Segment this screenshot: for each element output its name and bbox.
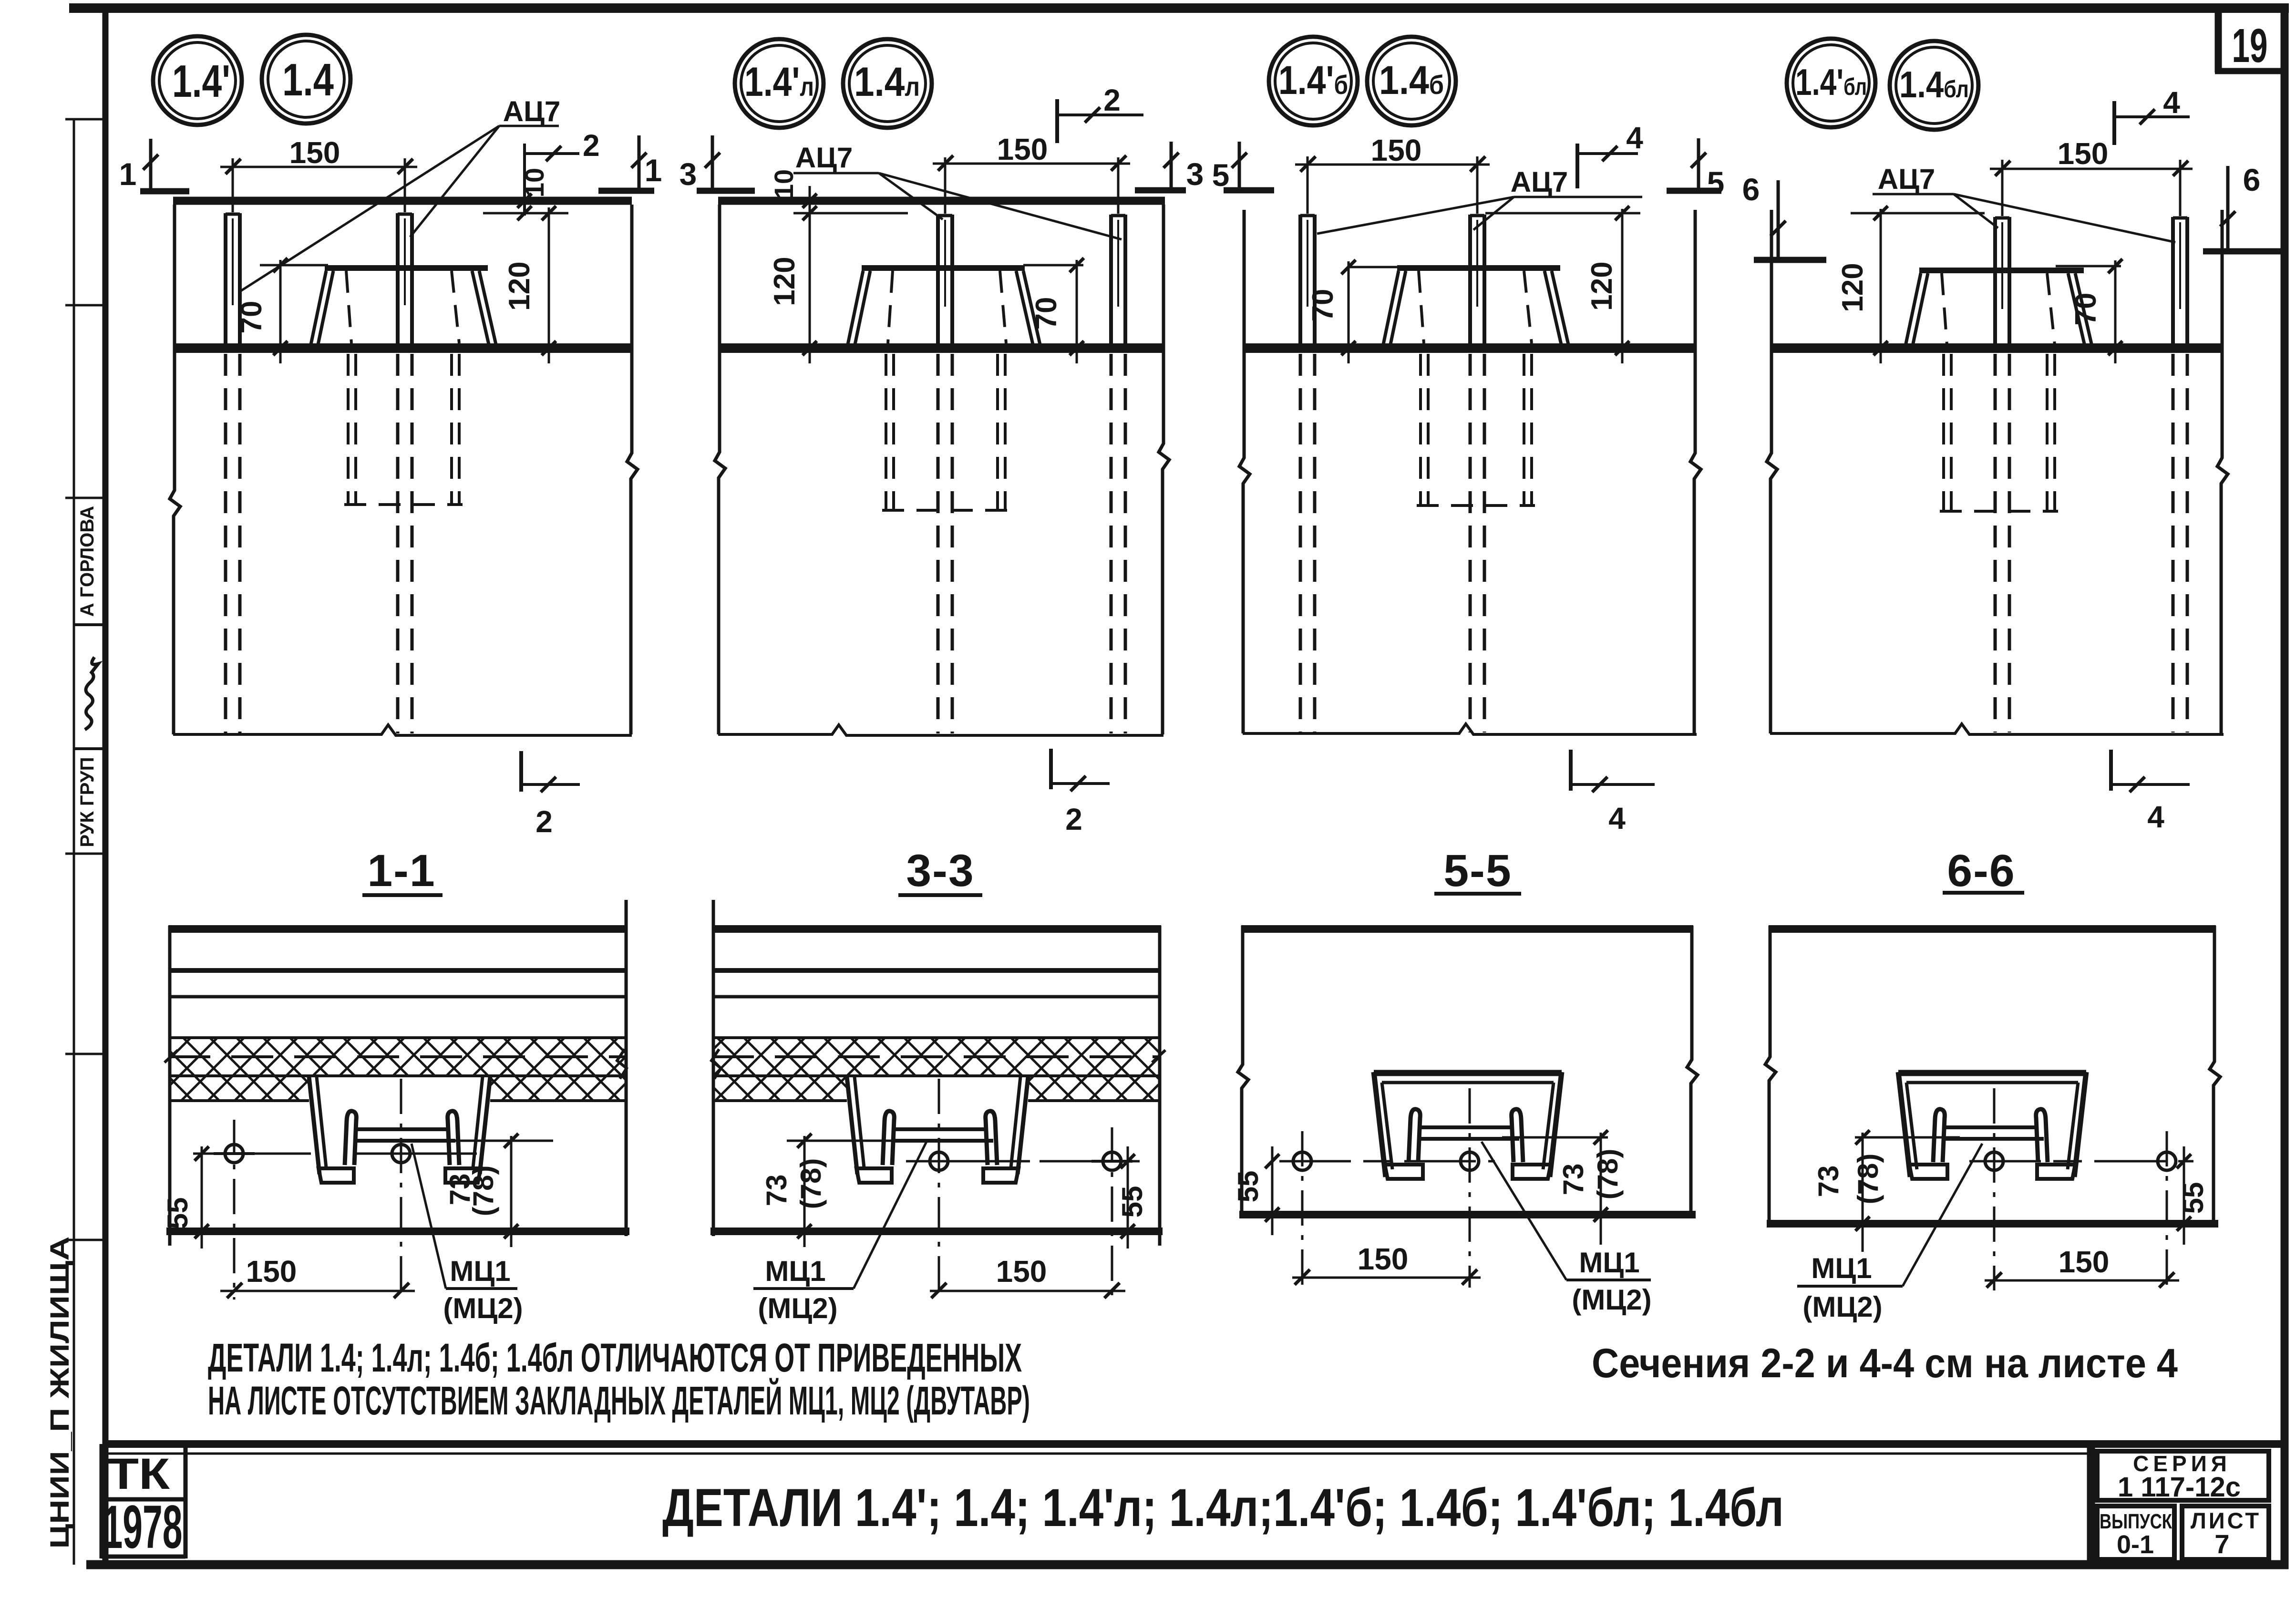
lower panel top edge (slab line) bbox=[718, 343, 1165, 353]
I-beam web bbox=[1418, 1127, 1519, 1139]
dovetail key hidden left edge bbox=[1419, 271, 1424, 343]
svg-text:1.4: 1.4 bbox=[282, 54, 334, 105]
anchor symbol centre bbox=[1461, 1088, 1479, 1288]
svg-text:АЦ7: АЦ7 bbox=[795, 142, 853, 174]
panel bottom line bbox=[1239, 1211, 1696, 1218]
dim 120 (panel reveal height) bbox=[1836, 206, 1985, 363]
detail circle 1.4б bbox=[1367, 37, 1456, 125]
anchor symbol centre bbox=[930, 1079, 948, 1300]
floor slab top line bbox=[712, 925, 1161, 933]
lower panel top edge (slab line) bbox=[1770, 343, 2224, 353]
svg-text:70: 70 bbox=[235, 301, 268, 334]
hatch band break mark 3-3 left end bbox=[711, 1049, 721, 1079]
upper panel bottom edge (top slab line) bbox=[718, 197, 1165, 205]
I-beam right flange bbox=[448, 1111, 459, 1165]
detail circle 1.4л bbox=[843, 39, 932, 128]
svg-text:150: 150 bbox=[2059, 1245, 2110, 1279]
panel left edge with break bbox=[1767, 210, 1777, 733]
trim tick y640 bbox=[65, 304, 105, 307]
dim 73 (78) bbox=[761, 1134, 901, 1247]
panel bottom line with break bbox=[1243, 724, 1697, 734]
detail circle 1.4бл bbox=[1890, 41, 1978, 130]
centre dash line end tick 1-1 bbox=[165, 1050, 178, 1063]
panel right edge with break bbox=[2210, 926, 2220, 1224]
svg-text:4: 4 bbox=[2163, 85, 2180, 120]
svg-text:(78): (78) bbox=[1592, 1149, 1624, 1200]
anchor symbol left bbox=[214, 1120, 255, 1300]
detail circle 1.4 bbox=[262, 35, 350, 124]
svg-text:(78): (78) bbox=[795, 1158, 827, 1209]
svg-text:150: 150 bbox=[1371, 133, 1422, 167]
dim 120 (panel reveal height) bbox=[1485, 206, 1640, 363]
svg-text:2: 2 bbox=[583, 128, 600, 163]
panel right edge with break bbox=[2217, 210, 2228, 733]
anchor symbol right bbox=[1091, 1127, 1133, 1300]
section mark 6 (left) bbox=[1742, 172, 1826, 260]
I-beam right flange bbox=[1512, 1109, 1523, 1162]
frame right border bbox=[2281, 4, 2289, 1569]
section title 3-3 bbox=[898, 846, 982, 896]
panel bottom line with break bbox=[173, 725, 632, 735]
list cell bbox=[2182, 1506, 2269, 1559]
dim 70 (key height) bbox=[1023, 258, 1084, 363]
svg-text:10: 10 bbox=[769, 169, 799, 199]
I-beam right flange bbox=[2036, 1109, 2048, 1162]
svg-text:3-3: 3-3 bbox=[906, 846, 974, 896]
label АЦ7 with leaders bbox=[793, 142, 1122, 239]
dovetail key right side bbox=[472, 271, 496, 344]
TK box bbox=[100, 1444, 104, 1558]
channel right foot bbox=[983, 1168, 1019, 1183]
panel right edge with break bbox=[627, 205, 638, 734]
svg-text:1-1: 1-1 bbox=[367, 846, 435, 896]
svg-text:4: 4 bbox=[2147, 800, 2164, 834]
dim 120 (panel reveal height) bbox=[768, 216, 817, 363]
dim 150 (rod spacing) bbox=[1295, 133, 1490, 214]
I-beam web bbox=[892, 1129, 993, 1141]
dovetail key right side bbox=[2068, 273, 2092, 346]
panel bottom line bbox=[1767, 1220, 2218, 1228]
dovetail key left side bbox=[1905, 273, 1928, 346]
svg-text:АЦ7: АЦ7 bbox=[503, 95, 561, 127]
anchor rod АЦ7 center (solid part) bbox=[938, 215, 952, 353]
centre line through anchors bbox=[1279, 1160, 1495, 1163]
svg-text:3: 3 bbox=[680, 156, 697, 192]
dim 55 bbox=[1232, 1146, 1279, 1235]
trim tick y2600 bbox=[65, 1239, 105, 1241]
floor layer line 2 bbox=[712, 968, 1161, 973]
svg-text:7: 7 bbox=[2214, 1529, 2229, 1559]
channel left foot bbox=[1909, 1165, 1947, 1179]
anchor rod АЦ7 right (solid part) bbox=[1470, 215, 1484, 353]
hidden key pocket below joint bbox=[882, 354, 1009, 510]
hatched strip right of channel bbox=[1028, 1077, 1161, 1101]
floor layer line 2 bbox=[168, 968, 628, 973]
sheet number box bbox=[2215, 13, 2222, 72]
label МЦ1 (МЦ2) with leader bbox=[1797, 1144, 1982, 1323]
trim tick y250 bbox=[65, 118, 105, 121]
dovetail key hidden right edge bbox=[1000, 271, 1006, 343]
dim 10 (joint gap) bbox=[483, 144, 568, 220]
svg-text:150: 150 bbox=[246, 1254, 297, 1289]
svg-text:1: 1 bbox=[119, 156, 137, 192]
panel right edge with break bbox=[1159, 205, 1169, 734]
panel left edge bbox=[712, 900, 715, 1236]
svg-text:(МЦ2): (МЦ2) bbox=[1572, 1284, 1651, 1316]
anchor rod center hidden part bbox=[938, 354, 952, 733]
section mark 4 (top) bbox=[2114, 85, 2190, 145]
hidden key pocket below joint bbox=[344, 354, 463, 505]
panel left edge with break bbox=[715, 205, 725, 734]
channel box МЦ1 outer bbox=[1898, 1072, 2086, 1177]
svg-text:5-5: 5-5 bbox=[1443, 846, 1512, 896]
label МЦ1 (МЦ2) with leader bbox=[412, 1144, 523, 1324]
trim tick y1790 bbox=[65, 853, 105, 855]
section mark 2 (top) bbox=[1057, 83, 1143, 143]
dim 150 (rod spacing) bbox=[1990, 136, 2193, 216]
svg-text:120: 120 bbox=[1586, 261, 1618, 310]
svg-text:0-1: 0-1 bbox=[2117, 1530, 2154, 1559]
panel right edge with break bbox=[1690, 210, 1701, 733]
panel top line bbox=[1241, 925, 1693, 933]
lower panel top edge (slab line) bbox=[173, 343, 632, 353]
svg-text:73: 73 bbox=[1557, 1164, 1589, 1196]
section mark 4 (top) bbox=[1577, 121, 1643, 188]
svg-text:НА ЛИСТЕ ОТСУТСТВИЕМ ЗАКЛАДНЫХ: НА ЛИСТЕ ОТСУТСТВИЕМ ЗАКЛАДНЫХ ДЕТАЛЕЙ М… bbox=[208, 1378, 1030, 1423]
upper panel bottom edge (top slab line) bbox=[173, 197, 632, 205]
dovetail key right side bbox=[1016, 271, 1040, 344]
panel left edge with break bbox=[1765, 926, 1776, 1224]
section mark 6 (right) bbox=[2203, 162, 2281, 251]
I-beam (двутавр) left flange bbox=[1933, 1109, 1945, 1162]
I-beam (двутавр) left flange bbox=[883, 1111, 894, 1165]
dim 150 (rod spacing) bbox=[220, 135, 417, 212]
svg-text:МЦ1: МЦ1 bbox=[450, 1255, 510, 1287]
anchor rod right hidden part bbox=[1111, 354, 1125, 733]
floor slab top line bbox=[168, 925, 628, 933]
svg-text:4: 4 bbox=[1626, 121, 1643, 155]
panel left edge with break bbox=[1238, 926, 1248, 1215]
channel box МЦ1 inner bbox=[1382, 1083, 1554, 1169]
svg-text:2: 2 bbox=[1065, 802, 1082, 836]
anchor symbol centre bbox=[1985, 1088, 2003, 1290]
dovetail key top edge bbox=[1919, 268, 2084, 273]
panel left edge with break bbox=[1239, 210, 1250, 733]
svg-text:5: 5 bbox=[1212, 157, 1230, 193]
frame bottom border bbox=[86, 1560, 2288, 1569]
label АЦ7 with leaders bbox=[1317, 166, 1642, 234]
dovetail key left side bbox=[311, 271, 333, 344]
dim 73 (78) bbox=[444, 1134, 553, 1247]
anchor rod left hidden part bbox=[226, 354, 240, 733]
dim 120 (panel reveal height) bbox=[503, 206, 556, 363]
svg-text:6: 6 bbox=[1742, 172, 1760, 207]
embedded channel МЦ1 right leg bbox=[1011, 1077, 1028, 1174]
channel right foot bbox=[445, 1168, 481, 1183]
dovetail key top edge bbox=[862, 265, 1025, 271]
svg-text:5: 5 bbox=[1707, 165, 1725, 200]
trim tick y1044 bbox=[65, 497, 105, 499]
dovetail key top edge bbox=[325, 265, 488, 271]
detail circle 1.4'б bbox=[1269, 37, 1358, 125]
panel top line bbox=[1769, 925, 2216, 933]
dovetail key left side bbox=[1383, 271, 1406, 344]
dim 150 between anchors bbox=[930, 1254, 1125, 1298]
svg-text:1: 1 bbox=[645, 153, 662, 188]
bottom band top line bbox=[105, 1440, 2285, 1448]
svg-text:АЦ7: АЦ7 bbox=[1511, 166, 1568, 198]
section mark 2 (bottom) bbox=[521, 751, 580, 839]
section title 1-1 bbox=[362, 846, 443, 896]
svg-text:150: 150 bbox=[996, 1254, 1047, 1289]
hatched strip right of channel bbox=[490, 1077, 628, 1101]
panel left edge with break bbox=[170, 205, 180, 734]
detail circle 1.4'л bbox=[735, 39, 824, 128]
label МЦ1 (МЦ2) with leader bbox=[1482, 1142, 1652, 1316]
panel bottom line bbox=[166, 1228, 629, 1235]
hatched strip left of channel bbox=[712, 1077, 847, 1101]
panel bottom line bbox=[710, 1228, 1163, 1235]
channel right foot bbox=[1513, 1165, 1551, 1179]
svg-text:150: 150 bbox=[2058, 136, 2109, 171]
svg-text:55: 55 bbox=[162, 1197, 194, 1229]
embedded channel МЦ1 left leg bbox=[309, 1077, 326, 1174]
hatched strip left of channel bbox=[168, 1077, 309, 1101]
svg-text:ДЕТАЛИ 1.4; 1.4л; 1.4б; 1.4бл: ДЕТАЛИ 1.4; 1.4л; 1.4б; 1.4бл ОТЛИЧАЮТСЯ… bbox=[208, 1335, 1022, 1380]
centre line through anchors bbox=[193, 1153, 477, 1155]
I-beam (двутавр) left flange bbox=[345, 1111, 356, 1165]
svg-text:3: 3 bbox=[1186, 156, 1204, 192]
I-beam (двутавр) left flange bbox=[1409, 1109, 1420, 1162]
section mark 2 (top) bbox=[525, 128, 600, 163]
section mark 3 (right) bbox=[1135, 142, 1204, 192]
svg-text:150: 150 bbox=[289, 135, 340, 170]
trim tick y2210 bbox=[65, 1053, 105, 1055]
insulation band hatched bbox=[168, 1038, 628, 1076]
centre dash line end tick 3-3 bbox=[1152, 1050, 1165, 1063]
svg-text:1.4': 1.4' bbox=[172, 56, 230, 107]
title block divider bbox=[2087, 1444, 2095, 1565]
I-beam right flange bbox=[986, 1111, 997, 1165]
svg-text:(78): (78) bbox=[1852, 1154, 1884, 1205]
section title 5-5 bbox=[1434, 846, 1521, 896]
svg-text:73: 73 bbox=[761, 1175, 793, 1207]
stamp strip box lines bbox=[74, 623, 105, 626]
dovetail key hidden right edge bbox=[1524, 271, 1532, 343]
detail circle 1.4' bbox=[153, 36, 242, 125]
svg-text:ЦНИИ_П ЖИЛИЩА: ЦНИИ_П ЖИЛИЩА bbox=[44, 1237, 74, 1549]
dovetail key hidden right edge bbox=[2047, 273, 2055, 345]
dim 73 (78) bbox=[1502, 1130, 1624, 1245]
section mark 5 (right) bbox=[1667, 138, 1724, 200]
svg-text:55: 55 bbox=[1232, 1171, 1264, 1203]
section mark 1 (left) bbox=[119, 139, 189, 192]
section mark 1 (right) bbox=[598, 135, 662, 191]
dovetail key hidden left edge bbox=[346, 271, 351, 343]
svg-text:ТК: ТК bbox=[108, 1450, 170, 1498]
svg-text:55: 55 bbox=[1116, 1186, 1148, 1218]
dovetail key hidden left edge bbox=[1942, 273, 1947, 345]
anchor rod left hidden part bbox=[1300, 354, 1315, 732]
centre line through anchors bbox=[1969, 1160, 2193, 1163]
panel left edge bbox=[168, 926, 172, 1246]
svg-text:19: 19 bbox=[2232, 19, 2268, 72]
svg-text:10: 10 bbox=[519, 168, 549, 197]
dim 55 bbox=[162, 1146, 209, 1248]
section mark 3 (left) bbox=[680, 135, 755, 192]
svg-text:4: 4 bbox=[1608, 801, 1626, 836]
channel left foot bbox=[856, 1168, 892, 1183]
svg-text:150: 150 bbox=[1358, 1242, 1409, 1276]
section mark 2 (bottom) bbox=[1051, 749, 1110, 836]
anchor symbol right bbox=[2158, 1131, 2176, 1290]
section mark 4 (bottom) bbox=[2111, 750, 2190, 834]
dim 10 (joint gap) bbox=[769, 169, 908, 220]
left trim line bbox=[73, 119, 75, 1565]
anchor rod АЦ7 left (solid part) bbox=[1995, 217, 2009, 353]
dovetail key hidden left edge bbox=[888, 271, 893, 343]
anchor rod right hidden part bbox=[2173, 354, 2187, 732]
svg-text:120: 120 bbox=[503, 261, 536, 310]
frame left border bbox=[103, 8, 109, 1565]
svg-text:ВЫПУСК: ВЫПУСК bbox=[2100, 1510, 2172, 1533]
dim 70 (key height) bbox=[2056, 259, 2122, 363]
anchor rod АЦ7 right (solid part) bbox=[1111, 215, 1125, 353]
svg-text:ДЕТАЛИ 1.4'; 1.4; 1.4'л; 1.4л;: ДЕТАЛИ 1.4'; 1.4; 1.4'л; 1.4л;1.4'б; 1.4… bbox=[662, 1478, 1784, 1537]
svg-text:МЦ1: МЦ1 bbox=[1811, 1252, 1872, 1284]
panel right edge bbox=[625, 900, 628, 1236]
anchor rod АЦ7 left (solid part) bbox=[1300, 215, 1315, 353]
label АЦ7 with leaders bbox=[1873, 163, 2175, 242]
panel bottom line with break bbox=[718, 725, 1163, 735]
svg-text:(МЦ2): (МЦ2) bbox=[1802, 1291, 1882, 1323]
svg-text:(78): (78) bbox=[467, 1166, 499, 1217]
bottom band inner line bbox=[105, 1453, 2091, 1455]
lower panel top edge (slab line) bbox=[1243, 343, 1697, 353]
floor layer line 3 bbox=[168, 995, 628, 999]
hatch band break mark 1-1 right end bbox=[617, 1049, 627, 1079]
vypusk cell bbox=[2097, 1506, 2174, 1559]
embedded channel МЦ1 left leg bbox=[847, 1077, 864, 1174]
I-beam web bbox=[1943, 1127, 2044, 1139]
svg-text:150: 150 bbox=[997, 132, 1048, 166]
svg-text:1978: 1978 bbox=[103, 1493, 183, 1561]
dim 55 bbox=[2177, 1146, 2209, 1245]
section mark 4 (bottom) bbox=[1571, 750, 1655, 836]
dim 150 between anchors bbox=[1292, 1242, 1481, 1285]
embedded channel МЦ1 right leg bbox=[473, 1077, 490, 1174]
centre line through anchors bbox=[906, 1160, 1140, 1163]
dim 70 (key height) bbox=[235, 258, 328, 363]
svg-text:МЦ1: МЦ1 bbox=[1579, 1247, 1639, 1279]
panel bottom line with break bbox=[1770, 724, 2224, 734]
svg-text:120: 120 bbox=[768, 257, 801, 306]
dim 73 (78) bbox=[1812, 1130, 1960, 1252]
anchor symbol left bbox=[1293, 1131, 1311, 1288]
detail circle 1.4'бл bbox=[1787, 39, 1875, 127]
dim 150 between anchors bbox=[1985, 1245, 2179, 1288]
svg-text:6: 6 bbox=[2243, 162, 2261, 197]
hidden key pocket below joint bbox=[1417, 354, 1535, 505]
channel left foot bbox=[1385, 1165, 1423, 1179]
svg-text:(МЦ2): (МЦ2) bbox=[758, 1292, 837, 1324]
dovetail key hidden right edge bbox=[452, 271, 459, 343]
dim 70 (key height) bbox=[1307, 260, 1398, 363]
anchor rod center hidden part bbox=[398, 354, 412, 733]
svg-text:70: 70 bbox=[1030, 297, 1063, 330]
svg-text:Сечения 2-2 и 4-4 см на листе: Сечения 2-2 и 4-4 см на листе 4 bbox=[1592, 1341, 2178, 1386]
dovetail key top edge bbox=[1397, 265, 1560, 271]
anchor symbol centre bbox=[392, 1079, 410, 1300]
dim 55 bbox=[1116, 1146, 1148, 1248]
anchor rod left hidden part bbox=[1995, 354, 2009, 732]
anchor rod right hidden part bbox=[1470, 354, 1484, 732]
svg-text:А ГОРЛОВА: А ГОРЛОВА bbox=[77, 506, 98, 617]
dovetail key left side bbox=[848, 271, 870, 344]
svg-text:2: 2 bbox=[1103, 83, 1121, 117]
svg-text:МЦ1: МЦ1 bbox=[765, 1255, 825, 1287]
label МЦ1 (МЦ2) with leader bbox=[753, 1141, 927, 1324]
dim 150 (rod spacing) bbox=[933, 132, 1130, 214]
svg-text:(МЦ2): (МЦ2) bbox=[443, 1292, 523, 1324]
section mark 5 (left) bbox=[1212, 142, 1274, 193]
channel box МЦ1 outer bbox=[1374, 1072, 1562, 1177]
svg-text:АЦ7: АЦ7 bbox=[1878, 163, 1936, 195]
svg-text:70: 70 bbox=[1307, 289, 1339, 322]
hidden key pocket below joint bbox=[1940, 354, 2058, 511]
section title 6-6 bbox=[1943, 846, 2024, 896]
stamp signature bbox=[85, 657, 98, 730]
I-beam web bbox=[354, 1129, 455, 1141]
channel box МЦ1 inner bbox=[1906, 1083, 2078, 1169]
panel right edge with break bbox=[1687, 926, 1698, 1215]
svg-text:РУК ГРУП: РУК ГРУП bbox=[77, 757, 98, 847]
frame top border bbox=[69, 3, 2289, 13]
dovetail key right side bbox=[1544, 271, 1568, 344]
svg-text:73: 73 bbox=[1812, 1166, 1844, 1197]
seriya cell bbox=[2097, 1451, 2269, 1500]
floor layer line 3 bbox=[712, 995, 1161, 999]
anchor rod АЦ7 right (solid part) bbox=[2173, 217, 2187, 353]
anchor rod АЦ7 left (solid part) bbox=[226, 213, 240, 353]
channel right foot bbox=[2037, 1165, 2075, 1179]
svg-text:1 117-12с: 1 117-12с bbox=[2118, 1472, 2241, 1503]
label АЦ7 with leaders bbox=[241, 95, 560, 291]
insulation band hatched bbox=[712, 1038, 1161, 1076]
svg-text:70: 70 bbox=[2069, 293, 2102, 326]
svg-text:2: 2 bbox=[535, 805, 553, 839]
dim 150 between anchors bbox=[220, 1254, 415, 1298]
panel right edge bbox=[1158, 926, 1162, 1246]
anchor rod АЦ7 center (solid part) bbox=[398, 213, 412, 353]
svg-text:6-6: 6-6 bbox=[1947, 846, 2015, 896]
svg-text:120: 120 bbox=[1836, 263, 1869, 312]
svg-text:55: 55 bbox=[2177, 1182, 2209, 1214]
channel left foot bbox=[319, 1168, 354, 1183]
